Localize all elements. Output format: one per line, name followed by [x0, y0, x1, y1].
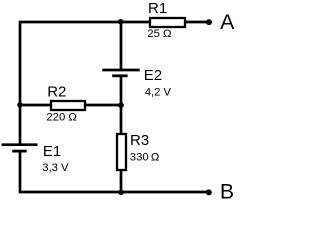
wire top horizontal from left rail to R1: [19, 21, 151, 24]
svg-text:4,2 V: 4,2 V: [145, 87, 172, 99]
junction dot top (mid rail / top wire): [118, 19, 124, 25]
battery E1 short plate: [12, 150, 26, 153]
node B terminal dot: [206, 189, 212, 195]
svg-text:R2: R2: [47, 83, 66, 100]
svg-text:A: A: [220, 10, 235, 34]
resistor R2: [51, 101, 85, 110]
junction dot mid rail / R2 wire: [118, 102, 124, 108]
svg-text:25 Ω: 25 Ω: [147, 28, 171, 40]
svg-text:B: B: [220, 180, 234, 203]
wire from R3 to bottom wire: [120, 170, 123, 193]
wire R2 row left segment: [20, 104, 52, 107]
battery E1 long plate: [2, 143, 38, 146]
svg-text:E1: E1: [43, 143, 61, 160]
svg-text:220 Ω: 220 Ω: [46, 112, 76, 124]
wire mid rail from E2 bottom plate to R2 wire node: [120, 76, 123, 105]
wire bottom horizontal from left rail to node B: [19, 191, 209, 194]
battery E2 short plate: [112, 74, 127, 77]
wire left rail upper (corner to E1 top plate): [19, 21, 22, 145]
junction dot left rail / R2 wire: [17, 102, 23, 108]
svg-text:R3: R3: [130, 132, 149, 149]
resistor R3: [117, 134, 126, 170]
wire from R1 to node A: [185, 21, 210, 24]
svg-text:E2: E2: [144, 67, 162, 84]
svg-text:3,3 V: 3,3 V: [42, 162, 69, 174]
node A terminal dot: [206, 19, 212, 25]
junction dot bottom (R3 / bottom wire): [118, 190, 124, 196]
svg-text:R1: R1: [148, 0, 167, 17]
battery E2 long plate: [102, 69, 139, 72]
wire R2 row right segment: [85, 104, 122, 107]
resistor R1: [150, 18, 185, 27]
wire mid rail from top wire to E2 top plate: [120, 22, 123, 70]
wire left rail lower (E1 bottom plate to bottom wire): [19, 151, 22, 193]
svg-text:330 Ω: 330 Ω: [130, 152, 160, 164]
wire from R2 node down to R3: [120, 105, 123, 135]
